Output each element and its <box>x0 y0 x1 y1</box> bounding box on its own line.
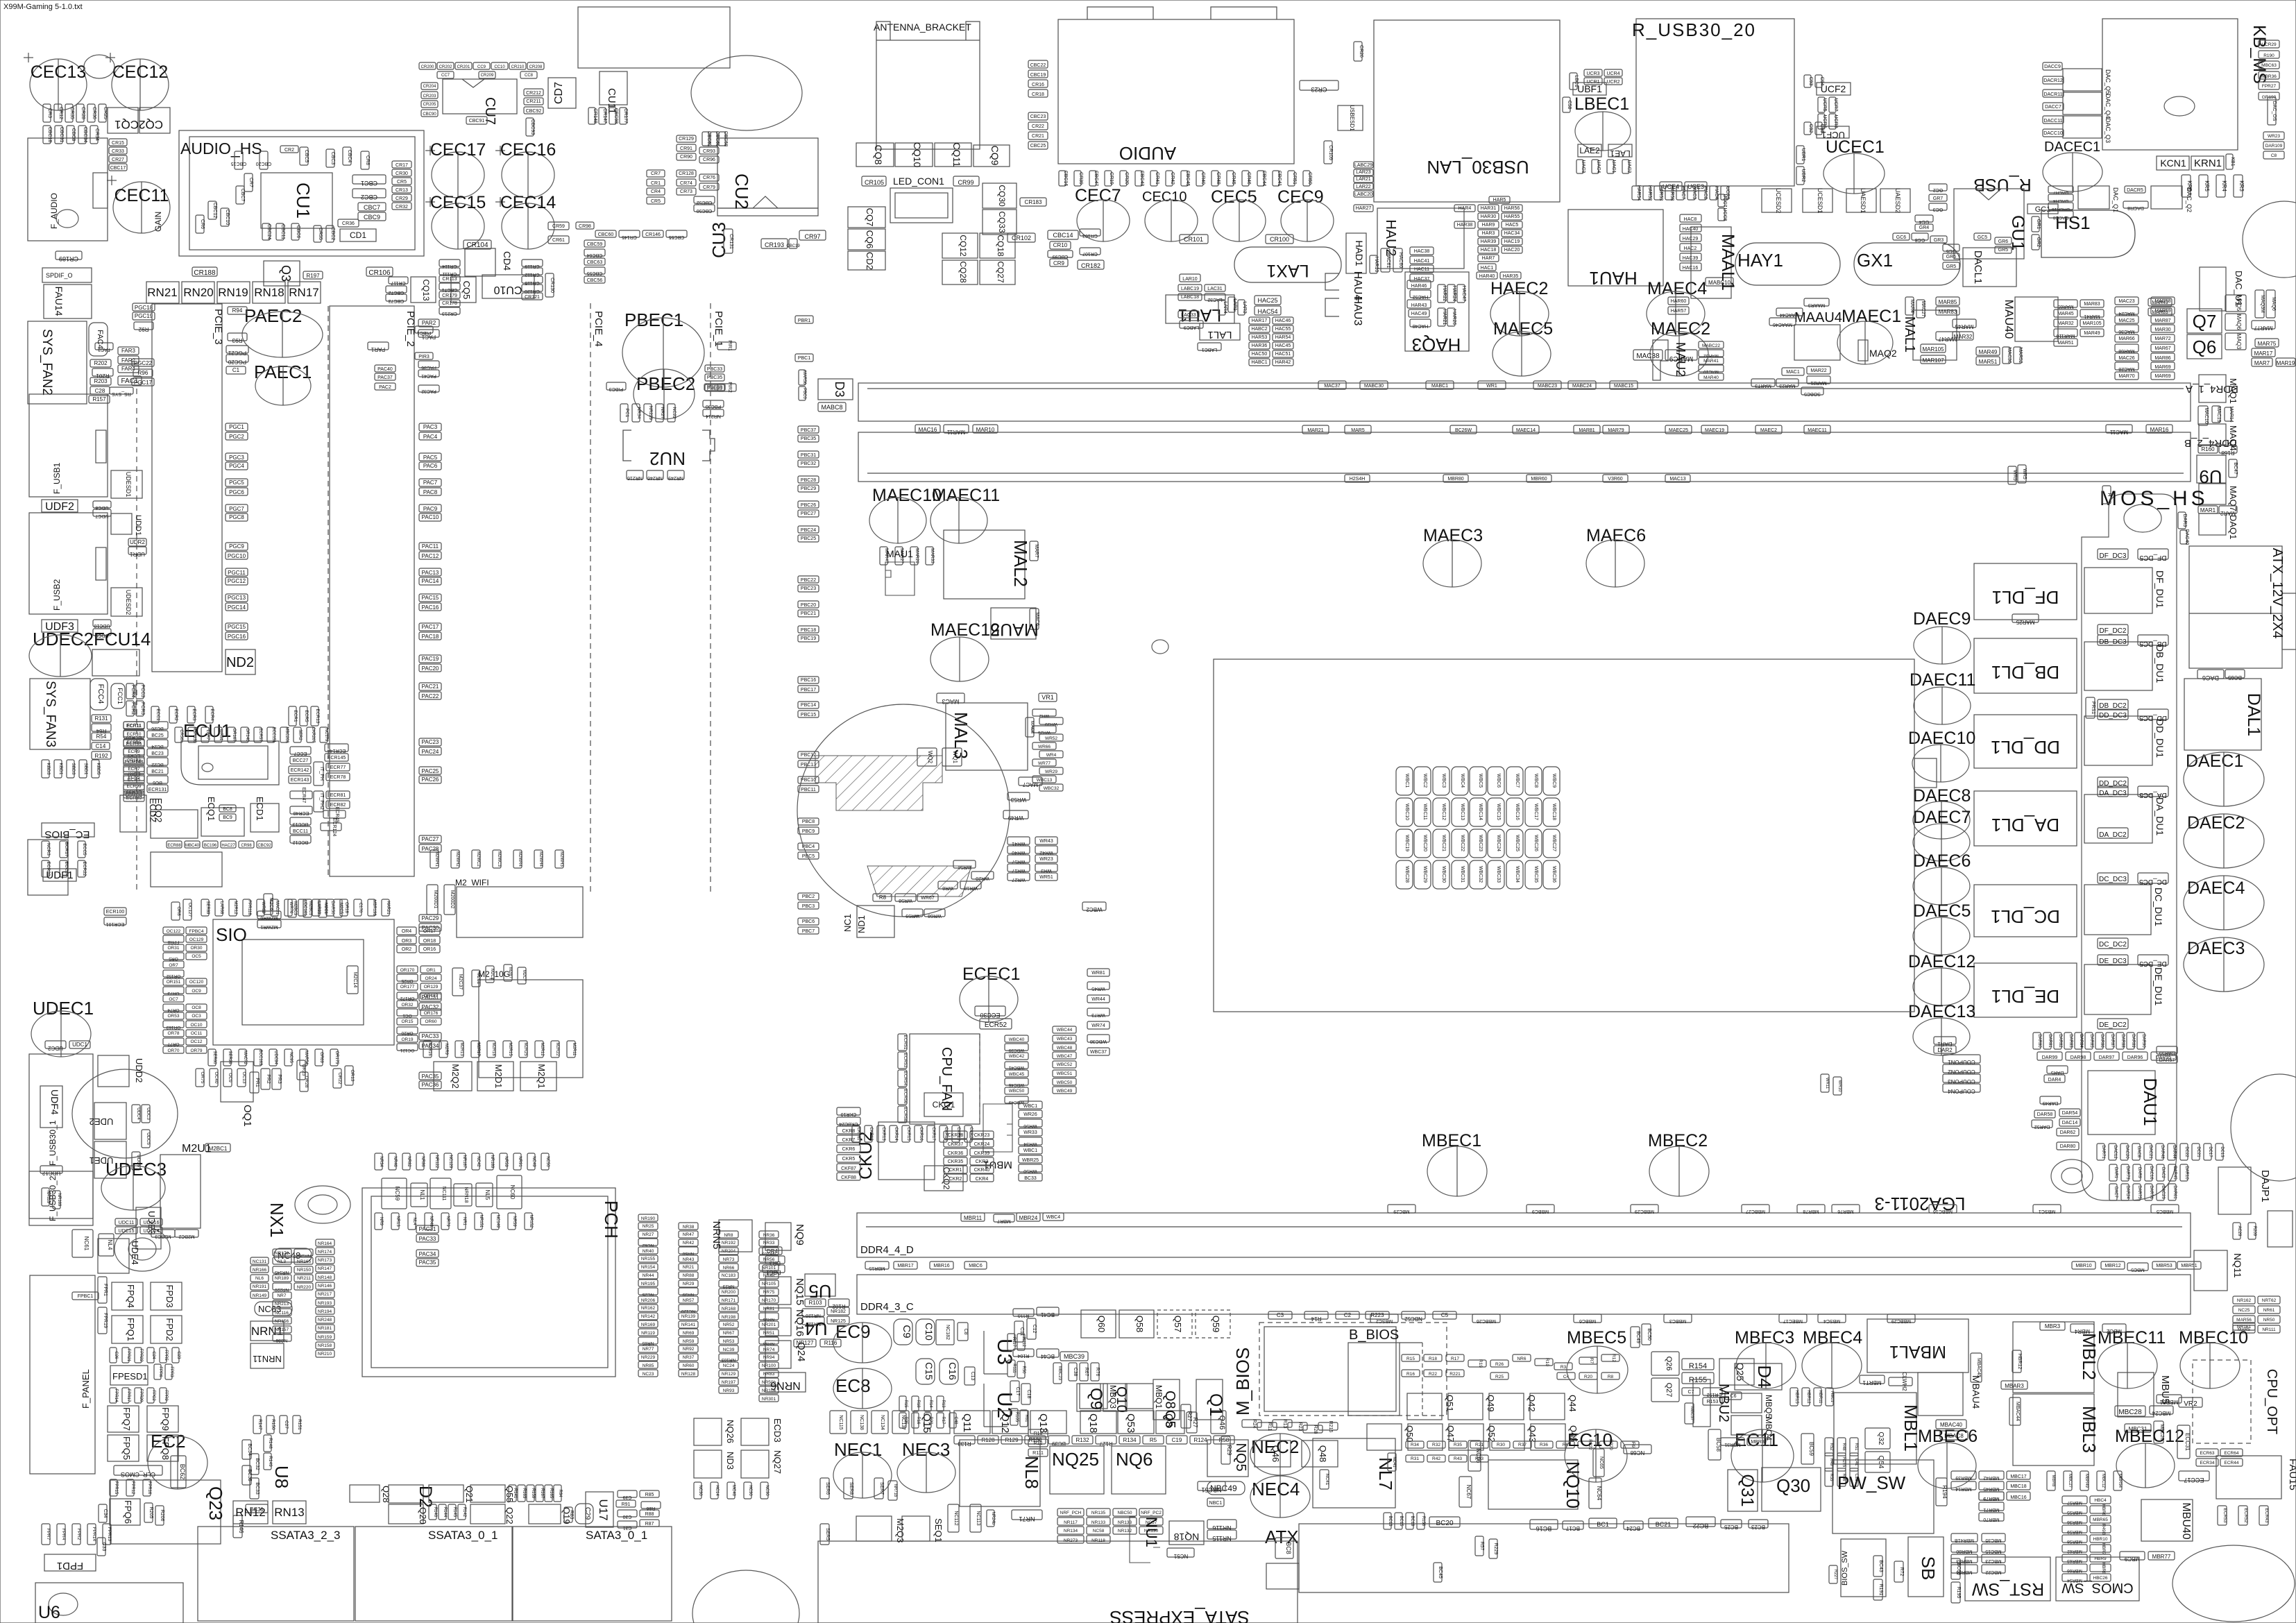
svg-text:FPR9: FPR9 <box>164 1390 168 1401</box>
svg-text:MAC21: MAC21 <box>275 901 279 915</box>
IC UDESD2 <box>111 588 142 616</box>
svg-text:NR273: NR273 <box>1064 1538 1078 1543</box>
svg-text:CR117: CR117 <box>391 280 405 285</box>
svg-text:C12: C12 <box>1032 1325 1037 1334</box>
svg-text:MAR32: MAR32 <box>2057 321 2073 326</box>
svg-text:R197: R197 <box>306 273 320 279</box>
cluster ECR63 ECR64 ECR34 right edge <box>2196 1449 2218 1456</box>
resistor MAC7 <box>1019 777 1042 788</box>
capacitor CEC14 <box>495 193 556 249</box>
svg-text:MAR16: MAR16 <box>2150 427 2169 433</box>
svg-text:WBC6: WBC6 <box>1496 774 1501 788</box>
svg-text:PIR1: PIR1 <box>727 340 732 351</box>
svg-text:WR59: WR59 <box>905 913 919 918</box>
svg-text:DAEC5: DAEC5 <box>1913 901 1971 921</box>
svg-text:DAC6: DAC6 <box>2202 674 2219 681</box>
svg-text:PBC39: PBC39 <box>707 386 722 391</box>
svg-text:R163: R163 <box>522 1488 526 1499</box>
svg-text:Q43: Q43 <box>1527 1425 1538 1443</box>
svg-text:NR206: NR206 <box>641 1298 656 1303</box>
svg-text:FPR5: FPR5 <box>164 1350 168 1361</box>
svg-text:CKR15: CKR15 <box>906 1127 910 1141</box>
svg-text:LAE2: LAE2 <box>1579 146 1600 155</box>
svg-text:DAR54: DAR54 <box>2062 1111 2078 1116</box>
svg-text:PAC19: PAC19 <box>422 656 439 662</box>
svg-text:PBC7: PBC7 <box>802 929 815 934</box>
svg-text:PAC10: PAC10 <box>422 514 439 520</box>
svg-text:SBD3: SBD3 <box>71 763 76 775</box>
capacitor EC10 <box>1565 1429 1627 1482</box>
IC SB <box>1908 1537 1944 1597</box>
svg-text:DF_DC2: DF_DC2 <box>2100 627 2127 635</box>
svg-text:WR49: WR49 <box>1007 815 1023 821</box>
svg-text:MAC38: MAC38 <box>1636 352 1660 360</box>
svg-text:CR113: CR113 <box>442 277 457 282</box>
svg-text:NR149: NR149 <box>253 1293 267 1298</box>
inductor MAL1 <box>1902 310 1957 360</box>
svg-text:BCC151: BCC151 <box>271 727 275 743</box>
svg-text:DAC16: DAC16 <box>2149 1166 2153 1180</box>
svg-text:R215: R215 <box>1328 1421 1333 1433</box>
svg-text:M2R13: M2R13 <box>459 1042 464 1056</box>
svg-text:BCR17: BCR17 <box>64 842 69 857</box>
svg-text:MBC12: MBC12 <box>2101 1474 2105 1488</box>
svg-text:NR105: NR105 <box>762 1282 776 1286</box>
IC NQ25 <box>1050 1446 1104 1494</box>
capacitor PAEC1 <box>255 366 311 405</box>
cluster left of GU1 <box>1929 184 1947 192</box>
cluster R52 R48 R51 R49 R153 C41 C23 etc <box>1825 1438 1833 1456</box>
cluster NC64 NC65b <box>1589 1478 1602 1509</box>
svg-text:UDC12: UDC12 <box>42 1170 60 1176</box>
svg-text:CR213: CR213 <box>442 311 457 316</box>
svg-text:NR100: NR100 <box>762 1363 776 1368</box>
svg-text:HAR56: HAR56 <box>1504 206 1520 211</box>
svg-text:CR179: CR179 <box>442 294 457 298</box>
svg-text:WR9: WR9 <box>2012 470 2017 481</box>
svg-text:MBC23: MBC23 <box>1985 1558 2001 1563</box>
svg-text:Q9: Q9 <box>1087 1388 1105 1410</box>
svg-text:Q28: Q28 <box>381 1486 391 1503</box>
svg-text:NR174: NR174 <box>318 1250 332 1255</box>
svg-text:PBC29: PBC29 <box>801 486 816 491</box>
svg-text:CBC22: CBC22 <box>1030 63 1046 68</box>
IC MBQ1 <box>1125 1384 1153 1409</box>
svg-text:NR92: NR92 <box>683 1347 695 1352</box>
svg-text:HAC41: HAC41 <box>1414 259 1430 264</box>
svg-text:ECR5: ECR5 <box>128 775 140 780</box>
svg-text:UCE3: UCE3 <box>1687 183 1704 190</box>
svg-text:OC7: OC7 <box>169 997 178 1002</box>
svg-text:M2R22: M2R22 <box>555 1042 559 1056</box>
cluster MAR88 MAR83b <box>1936 297 1959 305</box>
svg-text:RST_SW: RST_SW <box>1972 1579 2045 1599</box>
svg-text:OR176: OR176 <box>424 1011 439 1016</box>
svg-text:WR40: WR40 <box>1012 850 1026 855</box>
svg-text:DAC8: DAC8 <box>2136 1146 2141 1158</box>
svg-text:M2WH1: M2WH1 <box>434 851 439 867</box>
svg-text:R13: R13 <box>1282 1420 1287 1429</box>
cluster HAR54 HAR52 row <box>1632 185 1641 201</box>
svg-text:CKR2: CKR2 <box>949 1177 962 1182</box>
svg-text:CBC41: CBC41 <box>1277 171 1282 187</box>
svg-text:OC40: OC40 <box>214 1072 219 1084</box>
svg-text:WR23: WR23 <box>1039 857 1053 862</box>
transistor Q6 <box>2187 334 2222 359</box>
svg-text:HAR31: HAR31 <box>1481 206 1497 211</box>
svg-text:FPR4: FPR4 <box>61 1529 66 1540</box>
svg-text:CBC17: CBC17 <box>110 166 126 171</box>
svg-text:WR74: WR74 <box>1091 1023 1105 1028</box>
capacitor MBEC5 <box>1567 1346 1628 1393</box>
svg-text:MAR25: MAR25 <box>2016 619 2034 625</box>
svg-text:DAR24: DAR24 <box>2125 1185 2129 1199</box>
svg-text:CKR14: CKR14 <box>894 1127 898 1141</box>
svg-text:MBR62: MBR62 <box>2067 1549 2082 1554</box>
resistor HAR27 <box>1354 205 1373 212</box>
svg-text:NR33: NR33 <box>763 1241 775 1246</box>
svg-text:UAC2: UAC2 <box>1626 160 1631 173</box>
svg-text:MBC29: MBC29 <box>1393 1209 1409 1214</box>
svg-text:MAEC2: MAEC2 <box>1651 319 1710 339</box>
svg-text:NR162: NR162 <box>2237 1298 2252 1303</box>
svg-text:UDE2: UDE2 <box>90 1116 114 1127</box>
cluster BC58 BC59 <box>1708 1429 1721 1460</box>
svg-text:NR59: NR59 <box>512 1216 516 1227</box>
IC ECC17 <box>2179 1471 2209 1484</box>
svg-text:R96: R96 <box>138 370 148 376</box>
svg-text:ECC7: ECC7 <box>294 751 307 756</box>
svg-text:MAU40: MAU40 <box>2002 300 2016 339</box>
capacitor CEC15 <box>425 193 486 249</box>
inductor MAL3 <box>946 703 1028 770</box>
svg-text:R191: R191 <box>1878 1584 1883 1596</box>
cluster MAR49 MAR51 etc left of Q7 <box>2148 298 2172 306</box>
stadium LAX1 <box>1234 247 1341 282</box>
IC UCF2 <box>1817 83 1851 95</box>
svg-text:UDF1: UDF1 <box>46 869 73 881</box>
svg-text:NRN5: NRN5 <box>711 1221 722 1250</box>
resistor WR53 <box>1007 792 1030 803</box>
svg-text:ECR54: ECR54 <box>903 1071 908 1086</box>
capacitor UDEC3 <box>101 1166 165 1210</box>
svg-text:CR147: CR147 <box>602 108 607 124</box>
IC Q46 <box>1255 1441 1291 1467</box>
svg-text:DAR9: DAR9 <box>2137 1167 2141 1179</box>
svg-text:NR46: NR46 <box>393 1156 397 1167</box>
svg-text:CR4: CR4 <box>651 189 661 194</box>
labels DC_DC3 DC_DC5 <box>2098 873 2128 883</box>
svg-text:DAR3: DAR3 <box>2182 514 2187 527</box>
svg-text:R142: R142 <box>462 1507 466 1518</box>
svg-text:DAR80: DAR80 <box>2037 1034 2041 1048</box>
svg-text:DD_DC3: DD_DC3 <box>2099 712 2127 720</box>
svg-text:Q21: Q21 <box>464 1486 475 1503</box>
svg-text:NR59: NR59 <box>683 1339 695 1344</box>
svg-text:DD_DU1: DD_DU1 <box>2154 719 2166 758</box>
IC DC_DU1 <box>2084 885 2151 935</box>
svg-text:CR178: CR178 <box>442 301 457 306</box>
svg-text:DAQ1: DAQ1 <box>2228 515 2238 539</box>
svg-text:DACR8: DACR8 <box>2127 205 2144 210</box>
svg-text:NR61: NR61 <box>2263 1308 2275 1313</box>
svg-text:NR211: NR211 <box>297 1276 311 1281</box>
cluster below ND3 NQ27 <box>694 1482 702 1499</box>
capacitor CEC17 <box>425 140 486 198</box>
svg-text:WBC8: WBC8 <box>1533 774 1538 788</box>
svg-text:MBR24: MBR24 <box>1019 1215 1038 1221</box>
svg-text:DD_DL1: DD_DL1 <box>1991 737 2060 758</box>
IC HAU2 <box>1377 208 1464 269</box>
cluster M200D1 M200D2 <box>427 885 438 915</box>
svg-text:NC116: NC116 <box>275 1311 289 1316</box>
svg-text:CBC47: CBC47 <box>1094 171 1098 187</box>
svg-text:WR27: WR27 <box>1012 877 1026 882</box>
svg-text:MC40: MC40 <box>731 1485 735 1497</box>
svg-text:WR50: WR50 <box>1023 1169 1037 1173</box>
cluster DAR DAC bottom of MOS_HS <box>2097 1144 2105 1160</box>
svg-text:PGC17: PGC17 <box>134 380 153 386</box>
resistor PBC33 PBC35 PBC39 <box>705 365 724 372</box>
IC B_BIOS <box>1348 1327 1422 1416</box>
IC NC63 <box>255 1302 292 1316</box>
cluster R91 R85 R86 R88 R87 C39 C30 C31 <box>618 1490 637 1499</box>
svg-text:NC68: NC68 <box>1630 1450 1644 1456</box>
connector F_USB30_2 <box>29 1171 93 1225</box>
svg-text:OR129: OR129 <box>424 985 439 989</box>
svg-text:CKR40: CKR40 <box>974 1168 990 1173</box>
svg-text:NC137: NC137 <box>901 1415 905 1430</box>
svg-text:LAC31: LAC31 <box>1207 287 1223 291</box>
cluster HBR HBC column <box>1790 1388 1798 1406</box>
svg-text:GC4: GC4 <box>1919 219 1930 224</box>
svg-text:PC1: PC1 <box>624 409 629 418</box>
connector M2_10G <box>478 969 583 1078</box>
svg-text:HAR3: HAR3 <box>1482 231 1495 236</box>
svg-text:NR71: NR71 <box>1019 1515 1035 1522</box>
svg-text:MBR32: MBR32 <box>1751 1440 1767 1445</box>
cluster BCR17 ECR cluster below EC_BIOS <box>42 841 51 858</box>
svg-text:MAC25: MAC25 <box>2118 318 2134 323</box>
svg-text:GAIN: GAIN <box>153 212 163 232</box>
label M2BC1 <box>205 1144 230 1152</box>
svg-text:UCR3: UCR3 <box>1586 71 1599 76</box>
svg-text:PBC18: PBC18 <box>801 628 816 633</box>
svg-text:OC122: OC122 <box>167 929 181 934</box>
cluster WQ2 WQ1 <box>917 748 937 766</box>
svg-text:M200D1: M200D1 <box>433 890 438 909</box>
screw hole bottom MOS_HS <box>2051 1159 2093 1193</box>
svg-text:NRT62: NRT62 <box>2262 1298 2277 1303</box>
svg-text:NR119: NR119 <box>46 1191 50 1204</box>
svg-text:DDR4_3_C: DDR4_3_C <box>860 1301 914 1313</box>
svg-text:PBC0: PBC0 <box>802 388 806 399</box>
svg-text:C26: C26 <box>114 1351 118 1359</box>
svg-text:DACC11: DACC11 <box>2043 119 2062 124</box>
svg-text:CQ2CQ1: CQ2CQ1 <box>114 118 163 131</box>
svg-text:HAR36: HAR36 <box>1252 343 1268 348</box>
svg-text:ECC17: ECC17 <box>2184 1477 2204 1484</box>
svg-text:MBU40: MBU40 <box>2180 1502 2192 1539</box>
svg-text:NC149: NC149 <box>495 1215 500 1228</box>
svg-text:PBC11: PBC11 <box>801 788 816 792</box>
svg-text:NC60: NC60 <box>509 1185 516 1200</box>
svg-text:C39: C39 <box>622 1495 631 1499</box>
svg-text:NR190: NR190 <box>641 1216 656 1221</box>
IC NQ18 <box>1169 1521 1204 1545</box>
svg-text:MAC19: MAC19 <box>2216 406 2221 422</box>
svg-text:MAC1: MAC1 <box>1786 370 1800 375</box>
cluster R140 R144 R145 R142 <box>429 1504 437 1520</box>
svg-text:LABC1: LABC1 <box>1202 347 1217 352</box>
svg-text:DC_DC2: DC_DC2 <box>2099 941 2127 949</box>
svg-text:CR106: CR106 <box>368 269 391 277</box>
IC DAC_Q3 <box>2063 116 2102 138</box>
svg-text:ECR52: ECR52 <box>2243 1509 2248 1523</box>
svg-text:NR40: NR40 <box>643 1249 654 1254</box>
svg-text:UDEC3: UDEC3 <box>105 1159 167 1180</box>
svg-text:CEC7: CEC7 <box>1075 186 1121 205</box>
svg-text:HAR54: HAR54 <box>1636 185 1641 201</box>
cluster below ECU1 small <box>167 841 182 848</box>
svg-text:HAR42: HAR42 <box>1275 360 1291 365</box>
svg-text:R34: R34 <box>1411 1443 1419 1447</box>
svg-text:ECR35: ECR35 <box>127 740 142 745</box>
svg-text:RN20: RN20 <box>183 286 213 299</box>
svg-text:R147: R147 <box>257 1419 262 1430</box>
svg-text:M2R16: M2R16 <box>427 1042 432 1056</box>
svg-text:FPQ1: FPQ1 <box>126 1318 136 1341</box>
svg-text:HC14: HC14 <box>715 1485 719 1496</box>
svg-text:DAR5: DAR5 <box>2051 1070 2064 1075</box>
capacitor C29 <box>575 1504 593 1524</box>
svg-text:OR127: OR127 <box>424 994 439 999</box>
svg-text:UDF4: UDF4 <box>49 1089 60 1115</box>
IC Q48 <box>1302 1441 1338 1467</box>
svg-text:NR93: NR93 <box>723 1388 735 1393</box>
svg-text:HAC39: HAC39 <box>1683 256 1699 261</box>
label DD_DC2 <box>2098 777 2128 788</box>
svg-text:PBC30: PBC30 <box>706 404 721 409</box>
svg-text:CKR8: CKR8 <box>842 1129 856 1134</box>
svg-text:R24: R24 <box>1252 1420 1257 1429</box>
cluster R147 R150 C27 R151 above U8 <box>253 1416 262 1434</box>
svg-text:GC8: GC8 <box>1915 237 1925 242</box>
svg-text:CQ13: CQ13 <box>421 279 431 301</box>
svg-text:SB: SB <box>1918 1556 1939 1581</box>
svg-text:C8: C8 <box>963 1329 968 1335</box>
cluster NR127 R116 <box>794 1339 816 1347</box>
svg-text:OR4: OR4 <box>402 929 412 934</box>
svg-text:NR27: NR27 <box>643 1232 654 1237</box>
svg-text:OC10: OC10 <box>191 1023 203 1028</box>
svg-text:Q3: Q3 <box>279 265 293 282</box>
svg-text:MAC23: MAC23 <box>2118 299 2134 304</box>
svg-text:M2WH3: M2WH3 <box>559 851 563 867</box>
IC CKQ2 <box>924 1166 963 1191</box>
svg-text:MAR59: MAR59 <box>2154 309 2170 314</box>
IC NRN5 <box>711 1220 752 1252</box>
svg-text:R132: R132 <box>1075 1437 1089 1443</box>
svg-text:NQ25: NQ25 <box>1052 1449 1099 1470</box>
svg-text:UDC3: UDC3 <box>146 1107 151 1120</box>
svg-text:CKR17: CKR17 <box>931 1127 935 1141</box>
svg-text:HAC19: HAC19 <box>1504 239 1520 244</box>
svg-text:RN19: RN19 <box>218 286 248 299</box>
svg-text:FPR1: FPR1 <box>103 1284 108 1296</box>
svg-text:MABC24: MABC24 <box>1572 384 1592 389</box>
svg-text:DC13: DC13 <box>2220 1146 2224 1157</box>
svg-text:OR18: OR18 <box>423 939 436 944</box>
svg-text:Q26: Q26 <box>1665 1357 1673 1371</box>
svg-text:M2R7: M2R7 <box>508 967 512 979</box>
svg-text:MAR86: MAR86 <box>2154 356 2170 361</box>
cluster MBR3 MBR4 MBC2 above MBEC11 <box>2040 1322 2065 1330</box>
connector F_PANEL <box>30 1275 95 1474</box>
svg-text:MAL1: MAL1 <box>1902 316 1917 352</box>
svg-text:DAR84: DAR84 <box>2079 1034 2083 1048</box>
svg-text:U8: U8 <box>271 1465 292 1488</box>
svg-text:PBC16: PBC16 <box>801 678 816 683</box>
svg-text:DAR83: DAR83 <box>2068 1034 2073 1048</box>
cluster WR1 WR10 left <box>1821 1074 1829 1092</box>
IC Q1 <box>1196 1379 1225 1420</box>
cluster NQ26 ND3 ECD3 NQ27 <box>694 1418 783 1478</box>
IC DAC_Q2 <box>2151 186 2182 209</box>
IC UAESD2 <box>1880 188 1910 213</box>
svg-text:MBBC6: MBBC6 <box>1579 1318 1596 1323</box>
svg-text:NR155: NR155 <box>641 1257 656 1261</box>
svg-text:NC66: NC66 <box>1475 1449 1481 1463</box>
IC Q57 <box>1157 1310 1192 1338</box>
svg-text:NR128: NR128 <box>681 1372 696 1377</box>
svg-text:FCR3: FCR3 <box>140 702 145 715</box>
svg-text:BC23: BC23 <box>151 751 164 756</box>
cluster CR114 CR111 CR113 CBC71 CR179 CR178 CR213 <box>439 260 460 269</box>
svg-text:MAR33: MAR33 <box>930 548 935 563</box>
svg-text:HBR7: HBR7 <box>2101 1543 2106 1555</box>
svg-text:OR172: OR172 <box>400 996 414 1001</box>
IC FPQ5 <box>108 1435 139 1461</box>
svg-text:FPR12: FPR12 <box>130 1481 135 1495</box>
svg-text:OR1: OR1 <box>426 968 436 973</box>
svg-text:NR197: NR197 <box>722 1380 736 1385</box>
svg-text:CBC91: CBC91 <box>469 119 485 124</box>
svg-text:FPR14: FPR14 <box>114 1389 118 1402</box>
svg-text:CR40: CR40 <box>1200 172 1205 185</box>
svg-text:NR38: NR38 <box>683 1225 695 1230</box>
svg-text:PGC18: PGC18 <box>135 305 153 311</box>
svg-text:C10: C10 <box>924 1323 935 1341</box>
svg-text:PGC3: PGC3 <box>229 454 244 461</box>
cluster C34 R205 R207 <box>99 1504 108 1522</box>
svg-text:MBSC4: MBSC4 <box>1823 1318 1840 1323</box>
svg-text:OR19: OR19 <box>402 1037 414 1042</box>
svg-text:LAR3: LAR3 <box>1242 301 1247 314</box>
svg-text:DAR52: DAR52 <box>2034 1124 2050 1129</box>
svg-text:MAEC12: MAEC12 <box>930 620 1000 640</box>
svg-text:CBC6: CBC6 <box>296 226 300 239</box>
resistor CR131 <box>724 229 733 253</box>
capacitor CEC9 <box>1281 200 1334 241</box>
svg-text:NR73: NR73 <box>723 1257 735 1262</box>
svg-text:DAEC4: DAEC4 <box>2187 878 2245 898</box>
svg-text:NC95: NC95 <box>289 1052 293 1063</box>
svg-text:Q18: Q18 <box>1087 1413 1099 1433</box>
svg-text:CBC45: CBC45 <box>1185 171 1190 187</box>
svg-text:PCIE_3: PCIE_3 <box>212 309 224 345</box>
connector SPDIF_O <box>42 268 92 282</box>
